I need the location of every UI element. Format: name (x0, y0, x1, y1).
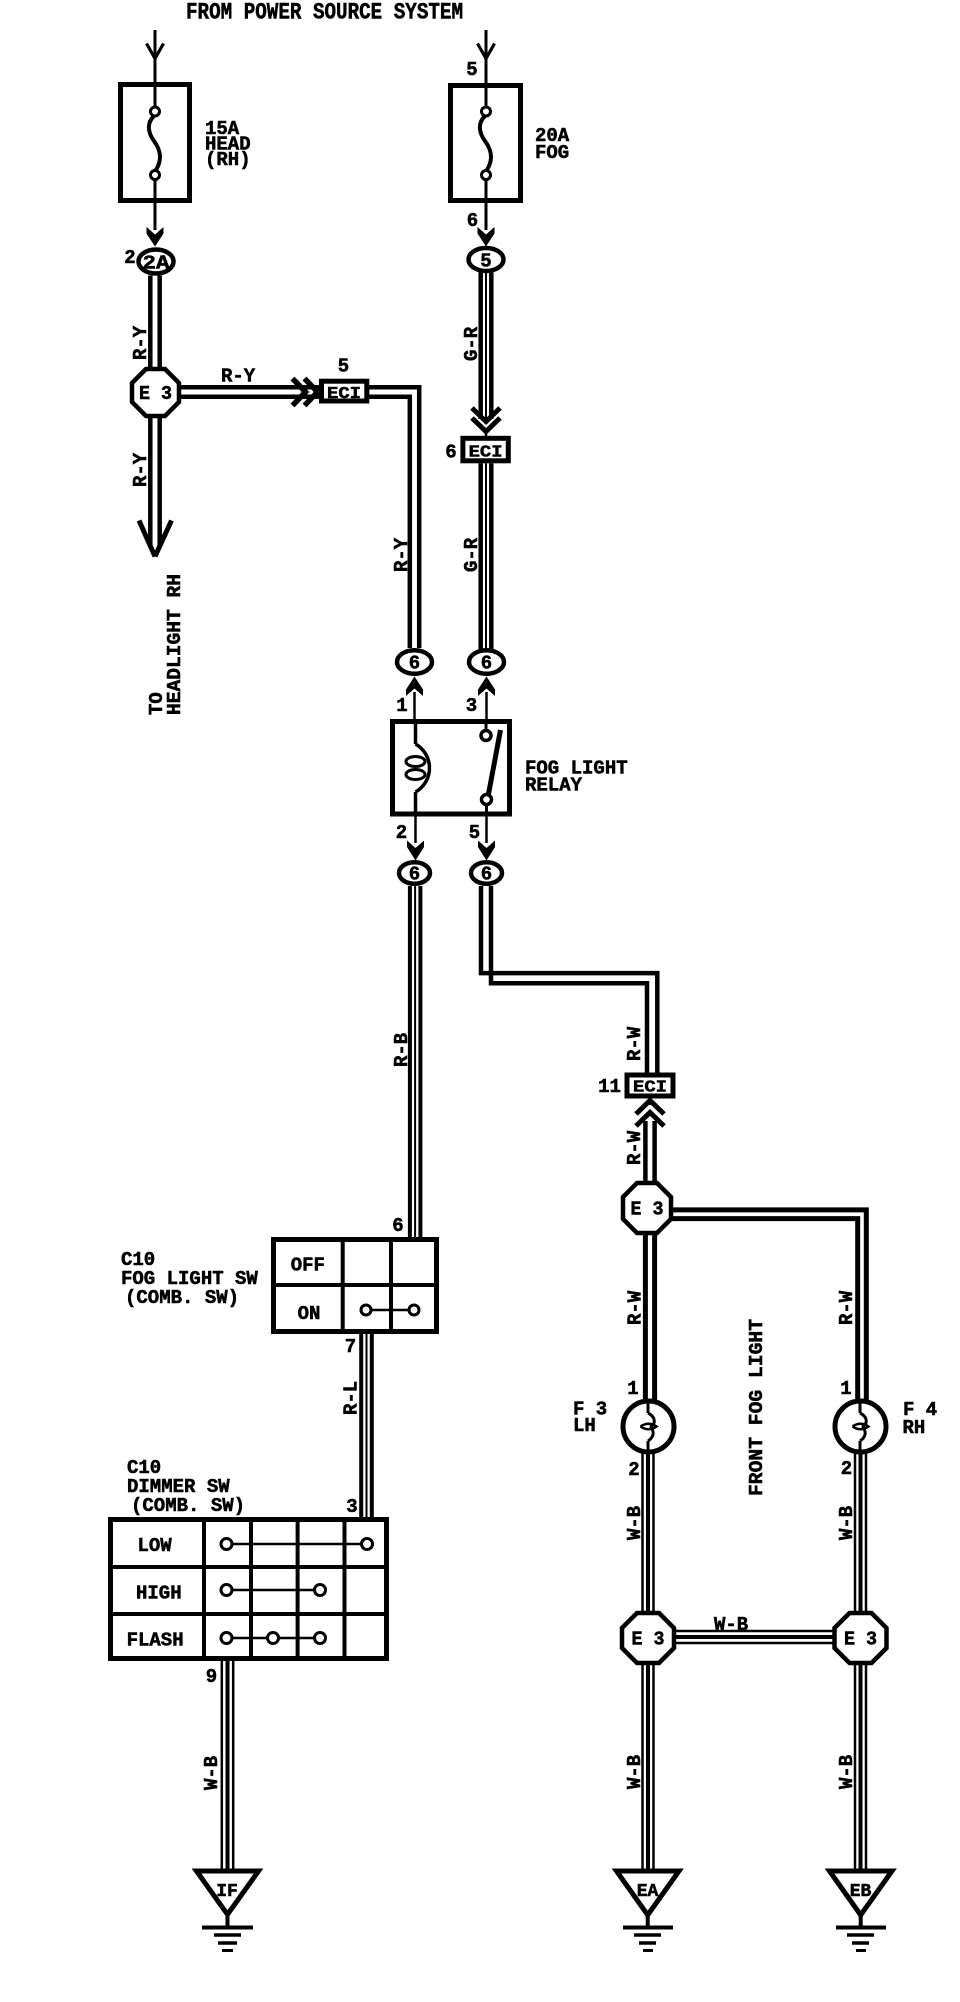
svg-text:6: 6 (481, 653, 492, 675)
contact HIGH row (227, 1589, 321, 1592)
svg-text:FRONT FOG LIGHT: FRONT FOG LIGHT (746, 1319, 768, 1496)
svg-text:6: 6 (409, 864, 420, 886)
junction E 3 (ground LH) (622, 1613, 674, 1663)
chevron marker up (649, 1099, 652, 1106)
wire R-L fog switch to dimmer switch (triple) (361, 1334, 372, 1518)
svg-text:6: 6 (392, 1215, 403, 1237)
svg-text:RELAY: RELAY (525, 775, 583, 797)
fuse label 15A HEAD (RH) (205, 118, 251, 171)
junction E 3 (left) (132, 369, 179, 416)
relay coil (414, 721, 418, 744)
relay label FOG LIGHT RELAY (525, 758, 628, 797)
svg-text:2: 2 (124, 247, 135, 269)
wire R-W E3 to RH fog light (double, corner) (671, 1210, 866, 1402)
chevron marker >> (293, 379, 318, 406)
svg-text:ECI: ECI (633, 1079, 667, 1098)
front fog light LH (623, 1401, 674, 1452)
svg-text:5: 5 (480, 251, 491, 273)
wire R-B relay to fog light switch (triple) (410, 886, 421, 1238)
wire R-W relay pin5 to ECI 11 (double, jog) (481, 886, 657, 1074)
contact LOW row (227, 1543, 368, 1546)
svg-text:R-W: R-W (836, 1290, 858, 1325)
arrow into 2A (147, 227, 164, 247)
svg-text:FLASH: FLASH (127, 1630, 184, 1652)
relay switch (485, 721, 488, 730)
ground EB (830, 1871, 893, 1951)
wire W-B LH light to E3 ground junction (triple) (643, 1452, 654, 1614)
arrow into connector 6 (pin5) (478, 841, 495, 861)
chevron marker down (472, 408, 500, 432)
svg-text:HIGH: HIGH (136, 1583, 182, 1605)
contact ON row (366, 1309, 414, 1312)
svg-text:2: 2 (841, 1458, 852, 1480)
wire R-Y E3 down (double) (150, 416, 159, 545)
svg-text:(COMB. SW): (COMB. SW) (131, 1495, 245, 1517)
switch C10 DIMMER SW (108, 1517, 389, 1661)
svg-text:5: 5 (466, 59, 477, 81)
wire relay pin5 down (485, 816, 488, 843)
svg-text:W-B: W-B (714, 1614, 748, 1636)
svg-text:ECI: ECI (469, 443, 503, 462)
arrow up into connector 6 left (406, 677, 423, 697)
svg-text:G-R: G-R (461, 326, 483, 361)
svg-text:R-Y: R-Y (391, 537, 413, 572)
wire R-Y ECI to relay pin1 (double, corner) (369, 387, 419, 648)
wire G-R ECI to relay pin3 (triple) (481, 463, 492, 650)
svg-text:W-B: W-B (836, 1506, 858, 1540)
connector 6 (relay pin3 top) (469, 650, 504, 674)
svg-text:1: 1 (627, 1378, 638, 1400)
svg-text:6: 6 (409, 653, 420, 675)
svg-text:1: 1 (396, 695, 407, 717)
connector 2A (139, 250, 174, 275)
wire W-B dimmer to ground IF (triple) (222, 1661, 233, 1872)
ground IF (197, 1871, 259, 1951)
arrow into connector 5 (478, 227, 495, 247)
svg-text:G-R: G-R (461, 537, 483, 572)
connector 5 (469, 248, 504, 273)
svg-text:LH: LH (573, 1415, 596, 1437)
svg-text:IF: IF (216, 1882, 238, 1902)
label F 3 LH (573, 1399, 607, 1438)
wire G-R connector5 to ECI (triple) (481, 273, 492, 420)
svg-text:W-B: W-B (201, 1756, 223, 1790)
svg-text:RH: RH (903, 1417, 926, 1439)
svg-text:5: 5 (338, 356, 349, 378)
wire W-B between E3 junctions (triple horizontal) (674, 1631, 835, 1643)
svg-text:11: 11 (598, 1076, 621, 1098)
svg-text:(RH): (RH) (205, 149, 251, 171)
contact FLASH row (227, 1637, 321, 1640)
svg-text:6: 6 (467, 210, 478, 232)
connector 6 (relay pin1 top) (397, 650, 432, 674)
wire W-B RH light to E3 ground junction (triple) (855, 1452, 866, 1614)
svg-text:3: 3 (346, 1496, 357, 1518)
svg-text:6: 6 (445, 442, 456, 464)
svg-text:FOG: FOG (535, 142, 569, 164)
svg-text:FROM POWER SOURCE SYSTEM: FROM POWER SOURCE SYSTEM (186, 0, 463, 26)
svg-text:R-B: R-B (391, 1033, 413, 1067)
wire fuse to connector 2A (154, 203, 157, 230)
svg-text:LOW: LOW (138, 1535, 173, 1557)
svg-text:R-W: R-W (625, 1290, 647, 1325)
fuse 15A HEAD (RH) (121, 84, 190, 203)
arrow to headlight (hollow) (139, 521, 172, 557)
label F 4 RH (903, 1399, 938, 1439)
svg-text:W-B: W-B (624, 1755, 646, 1789)
svg-text:EB: EB (850, 1882, 872, 1902)
svg-text:3: 3 (466, 695, 477, 717)
label C10 DIMMER SW (COMB. SW) (127, 1457, 245, 1517)
svg-text:E 3: E 3 (631, 1199, 664, 1221)
arrow up into connector 6 right (478, 677, 495, 697)
fuse 20A FOG (451, 85, 521, 203)
svg-text:EA: EA (637, 1882, 659, 1902)
svg-text:ECI: ECI (327, 385, 361, 404)
switch C10 FOG LIGHT SW (271, 1237, 439, 1334)
wire R-Y E3 to ECI (horizontal double) (179, 387, 320, 397)
svg-text:R-Y: R-Y (130, 452, 152, 487)
connector 6 (relay pin2 bottom) (399, 862, 430, 885)
svg-text:W-B: W-B (836, 1755, 858, 1789)
svg-text:R-W: R-W (624, 1130, 646, 1165)
label C10 FOG LIGHT SW (COMB. SW) (121, 1249, 258, 1309)
svg-text:R-W: R-W (624, 1026, 646, 1061)
arrow into connector 6 (pin2) (407, 841, 424, 861)
connector 6 (relay pin5 bottom) (471, 862, 502, 885)
fuse label 20A FOG (535, 125, 570, 164)
svg-text:9: 9 (206, 1666, 217, 1688)
svg-text:ON: ON (298, 1303, 321, 1325)
svg-text:OFF: OFF (291, 1255, 325, 1277)
wire W-B E3 to ground EA (triple) (643, 1663, 654, 1872)
wire fuse to connector 5 (485, 203, 488, 230)
svg-text:R-L: R-L (341, 1381, 363, 1415)
svg-text:E 3: E 3 (139, 383, 172, 405)
wire from power source (left feed) (154, 30, 157, 83)
junction E 3 (ground RH) (835, 1613, 887, 1663)
svg-text:2: 2 (396, 822, 407, 844)
svg-text:W-B: W-B (624, 1506, 646, 1540)
svg-text:2: 2 (628, 1459, 639, 1481)
svg-text:E 3: E 3 (632, 1629, 665, 1651)
relay FOG LIGHT RELAY (393, 721, 510, 815)
svg-text:E 3: E 3 (844, 1629, 877, 1651)
svg-text:5: 5 (469, 822, 480, 844)
wire R-W E3 to LH fog light (double) (645, 1233, 654, 1402)
svg-text:1: 1 (840, 1378, 851, 1400)
svg-text:7: 7 (345, 1336, 356, 1358)
wire R-Y 2A to E3 (double) (150, 276, 159, 371)
svg-text:6: 6 (481, 864, 492, 886)
svg-text:2A: 2A (143, 253, 171, 275)
junction E 3 (fog feed) (623, 1183, 671, 1233)
svg-text:R-Y: R-Y (130, 325, 152, 360)
ground EA (617, 1871, 680, 1951)
front fog light RH (835, 1401, 886, 1452)
wire W-B E3 to ground EB (triple) (855, 1663, 866, 1872)
svg-text:R-Y: R-Y (221, 366, 256, 388)
svg-text:(COMB. SW): (COMB. SW) (125, 1287, 239, 1309)
wire R-W chevron to E3 (double) (645, 1121, 654, 1184)
wire from power source (right feed) (485, 30, 488, 84)
wire relay pin2 down (414, 816, 417, 843)
